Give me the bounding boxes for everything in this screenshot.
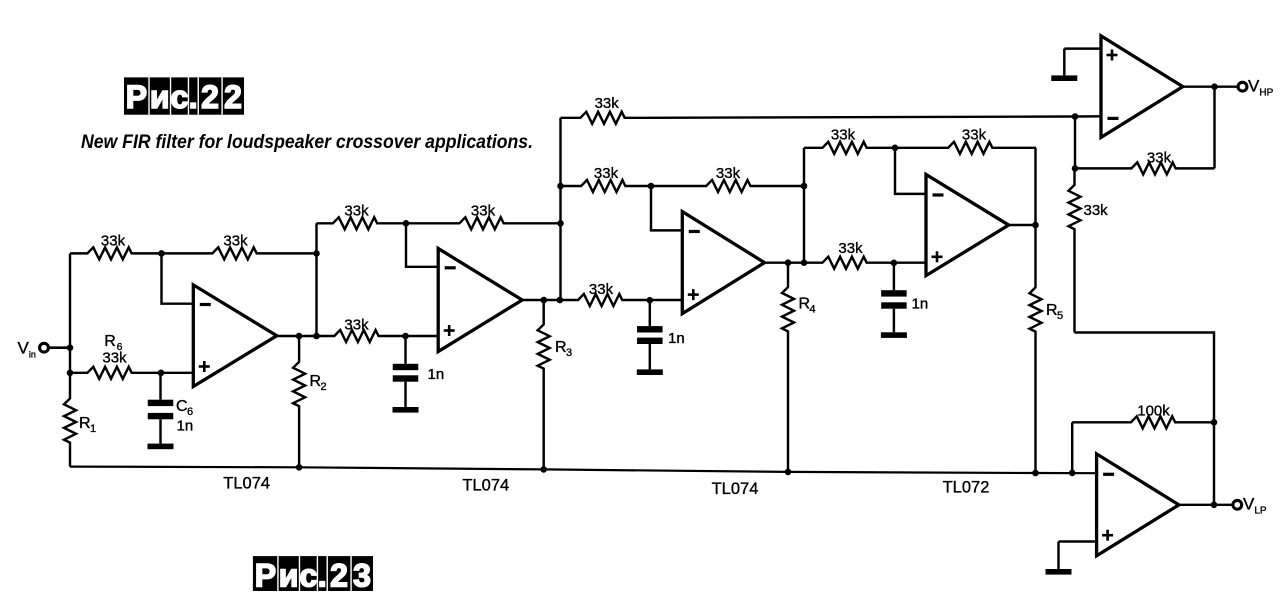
svg-text:5: 5: [1057, 310, 1063, 322]
svg-text:R: R: [799, 296, 811, 313]
node stage2 fb mid: [403, 220, 410, 227]
node stage1 output: [296, 333, 320, 340]
node stage2 output: [541, 297, 564, 304]
node U6 fb tap: [1069, 470, 1076, 477]
svg-text:2: 2: [330, 558, 348, 591]
svg-text:33k: 33k: [1147, 149, 1172, 166]
wire bottom rail: [70, 467, 1097, 474]
svg-text:2: 2: [224, 79, 242, 115]
node stage4 output: [1032, 222, 1039, 229]
svg-text:R: R: [310, 373, 322, 390]
wire vertical x316: [315, 223, 317, 336]
svg-text:с: с: [299, 558, 317, 591]
svg-text:.: .: [318, 558, 327, 591]
wire U2 inverting input: [406, 223, 438, 266]
node stage3 output: [785, 259, 808, 266]
terminal VLP: [1233, 495, 1267, 517]
node stage1 fb mid: [158, 250, 165, 257]
svg-text:33k: 33k: [595, 95, 620, 112]
node 100k right: [1211, 419, 1218, 426]
wire Vin vertical: [69, 253, 71, 372]
resistor 33k top rail: [561, 95, 646, 124]
svg-text:2: 2: [321, 381, 327, 393]
capacitor 1n stage2: [393, 336, 445, 413]
node Vin junction: [67, 344, 74, 351]
wire U6 fb vertical left: [1071, 422, 1073, 473]
node stage3 fb mid: [648, 183, 655, 190]
node stage4 plus junction: [891, 260, 898, 267]
resistor R4: [782, 263, 816, 472]
resistor 33k vertical: [1069, 168, 1109, 332]
svg-text:6: 6: [187, 406, 193, 418]
wire VHP junction vertical: [1074, 117, 1076, 169]
terminal Vin: [18, 339, 71, 360]
node stage3 plus junction: [647, 297, 654, 304]
wire vertical x804: [803, 148, 805, 263]
resistor 33k U5 feedback: [1075, 149, 1215, 174]
svg-text:33k: 33k: [962, 126, 987, 143]
node U5 output: [1211, 83, 1218, 90]
node R3 bottom: [540, 466, 547, 473]
wire U1 inverting input: [162, 253, 194, 303]
wire U3 inverting input: [651, 186, 682, 230]
svg-text:C: C: [176, 398, 188, 415]
wire U1 noninverting input: [161, 372, 193, 374]
resistor 33k stage3 feedback right: [651, 165, 804, 192]
resistor R5: [1030, 225, 1064, 473]
svg-text:1n: 1n: [912, 296, 929, 313]
node stage4 fb mid: [892, 145, 899, 152]
svg-text:1: 1: [90, 423, 96, 435]
node top rail U5 fb tap: [1072, 113, 1079, 120]
wire stage4 fb corner: [1034, 148, 1036, 225]
svg-text:3: 3: [353, 558, 371, 591]
svg-text:33k: 33k: [223, 232, 248, 249]
svg-text:TL074: TL074: [223, 475, 270, 493]
label TL074 stage3: [712, 480, 759, 498]
wire vertical x560: [559, 118, 561, 300]
node stage2 fb right: [557, 220, 564, 227]
resistor 33k stage4 feedback right: [895, 126, 1036, 153]
wire U4 inverting input: [895, 148, 926, 194]
resistor R1: [64, 373, 96, 467]
label TL072 stage4: [943, 479, 990, 497]
svg-text:и: и: [279, 558, 299, 591]
ground U5: [1051, 49, 1077, 81]
svg-text:R: R: [555, 339, 567, 356]
svg-text:33k: 33k: [102, 350, 127, 367]
svg-text:New FIR filter for loudspeaker: New FIR filter for loudspeaker crossover…: [81, 131, 533, 153]
svg-text:1n: 1n: [428, 366, 445, 383]
wire stage3 output rail: [765, 240, 927, 269]
svg-text:1n: 1n: [668, 330, 685, 347]
label TL074 stage2: [462, 477, 509, 495]
svg-text:33k: 33k: [1084, 202, 1109, 219]
op-amp U6: [1097, 454, 1179, 556]
resistor 33k stage2 feedback right: [406, 202, 561, 229]
resistor 33k stage2 feedback left: [317, 202, 407, 229]
wire U6 plus to ground: [1059, 540, 1097, 542]
svg-text:100k: 100k: [1137, 402, 1170, 419]
svg-text:Р: Р: [126, 79, 147, 115]
svg-text:33k: 33k: [589, 281, 614, 298]
svg-text:.: .: [189, 79, 198, 115]
svg-text:33k: 33k: [838, 240, 863, 257]
resistor 100k U6 feedback: [1072, 402, 1214, 428]
node R6 plus junction: [67, 370, 165, 377]
wire U5 fb vertical right: [1213, 87, 1215, 169]
ground U6: [1046, 542, 1072, 575]
label TL074 stage1: [223, 475, 270, 493]
resistor R2: [293, 336, 327, 467]
node stage2 plus junction: [402, 333, 409, 340]
svg-text:и: и: [150, 79, 170, 115]
wire stage2 output rail: [522, 281, 682, 306]
figure label Рис.23: [253, 556, 373, 594]
capacitor 1n stage4: [881, 263, 928, 338]
figure label Рис.22: [124, 77, 244, 115]
capacitor 1n stage3: [637, 300, 685, 375]
wire stage1 output rail: [277, 317, 438, 343]
op-amp U3: [682, 212, 764, 314]
node stage1 fb right: [313, 250, 320, 257]
svg-text:R: R: [104, 333, 116, 350]
svg-text:с: с: [170, 79, 188, 115]
node stage3 fb right: [801, 183, 808, 190]
svg-text:2: 2: [201, 79, 219, 115]
resistor R3: [538, 300, 572, 469]
wire U5 plus to ground: [1064, 47, 1101, 49]
resistor 33k stage3 feedback left: [561, 165, 652, 192]
svg-text:33k: 33k: [101, 232, 126, 249]
node U6 minus rail R5: [1032, 470, 1039, 477]
capacitor C6 1n: [148, 373, 194, 449]
resistor 33k stage1 feedback right: [162, 232, 317, 259]
caption text: [81, 131, 533, 153]
svg-text:R: R: [1046, 302, 1058, 319]
node stage3 fb left: [557, 183, 564, 190]
svg-text:R: R: [79, 415, 91, 432]
resistor 33k stage1 feedback left: [70, 232, 162, 259]
op-amp U2: [438, 249, 522, 352]
svg-text:TL074: TL074: [462, 477, 509, 495]
svg-text:3: 3: [566, 347, 572, 359]
wire U6 output: [1179, 504, 1233, 506]
svg-text:Р: Р: [255, 558, 276, 591]
svg-text:33k: 33k: [471, 202, 496, 219]
terminal VHP: [1238, 77, 1273, 99]
wire U4 output: [1009, 224, 1036, 226]
svg-text:33k: 33k: [344, 202, 369, 219]
node U5 fb left: [1072, 165, 1079, 172]
svg-text:33k: 33k: [344, 317, 369, 334]
svg-text:TL072: TL072: [943, 479, 990, 497]
svg-text:1n: 1n: [177, 418, 194, 435]
wire U5 output: [1183, 85, 1238, 87]
svg-text:4: 4: [810, 304, 816, 316]
svg-text:33k: 33k: [831, 126, 856, 143]
resistor 33k stage4 feedback left: [804, 126, 895, 153]
wire crossover link: [1075, 333, 1215, 505]
svg-text:33k: 33k: [594, 165, 619, 182]
resistor R6 33k: [70, 333, 161, 379]
svg-text:TL074: TL074: [712, 480, 759, 498]
node U6 output: [1211, 502, 1218, 509]
op-amp U4: [926, 175, 1009, 276]
op-amp U5: [1101, 36, 1183, 137]
node R2 bottom: [296, 464, 303, 471]
op-amp U1: [193, 285, 276, 387]
wire top rail long: [645, 116, 1101, 118]
svg-text:33k: 33k: [716, 165, 741, 182]
node R4 bottom: [785, 469, 792, 476]
